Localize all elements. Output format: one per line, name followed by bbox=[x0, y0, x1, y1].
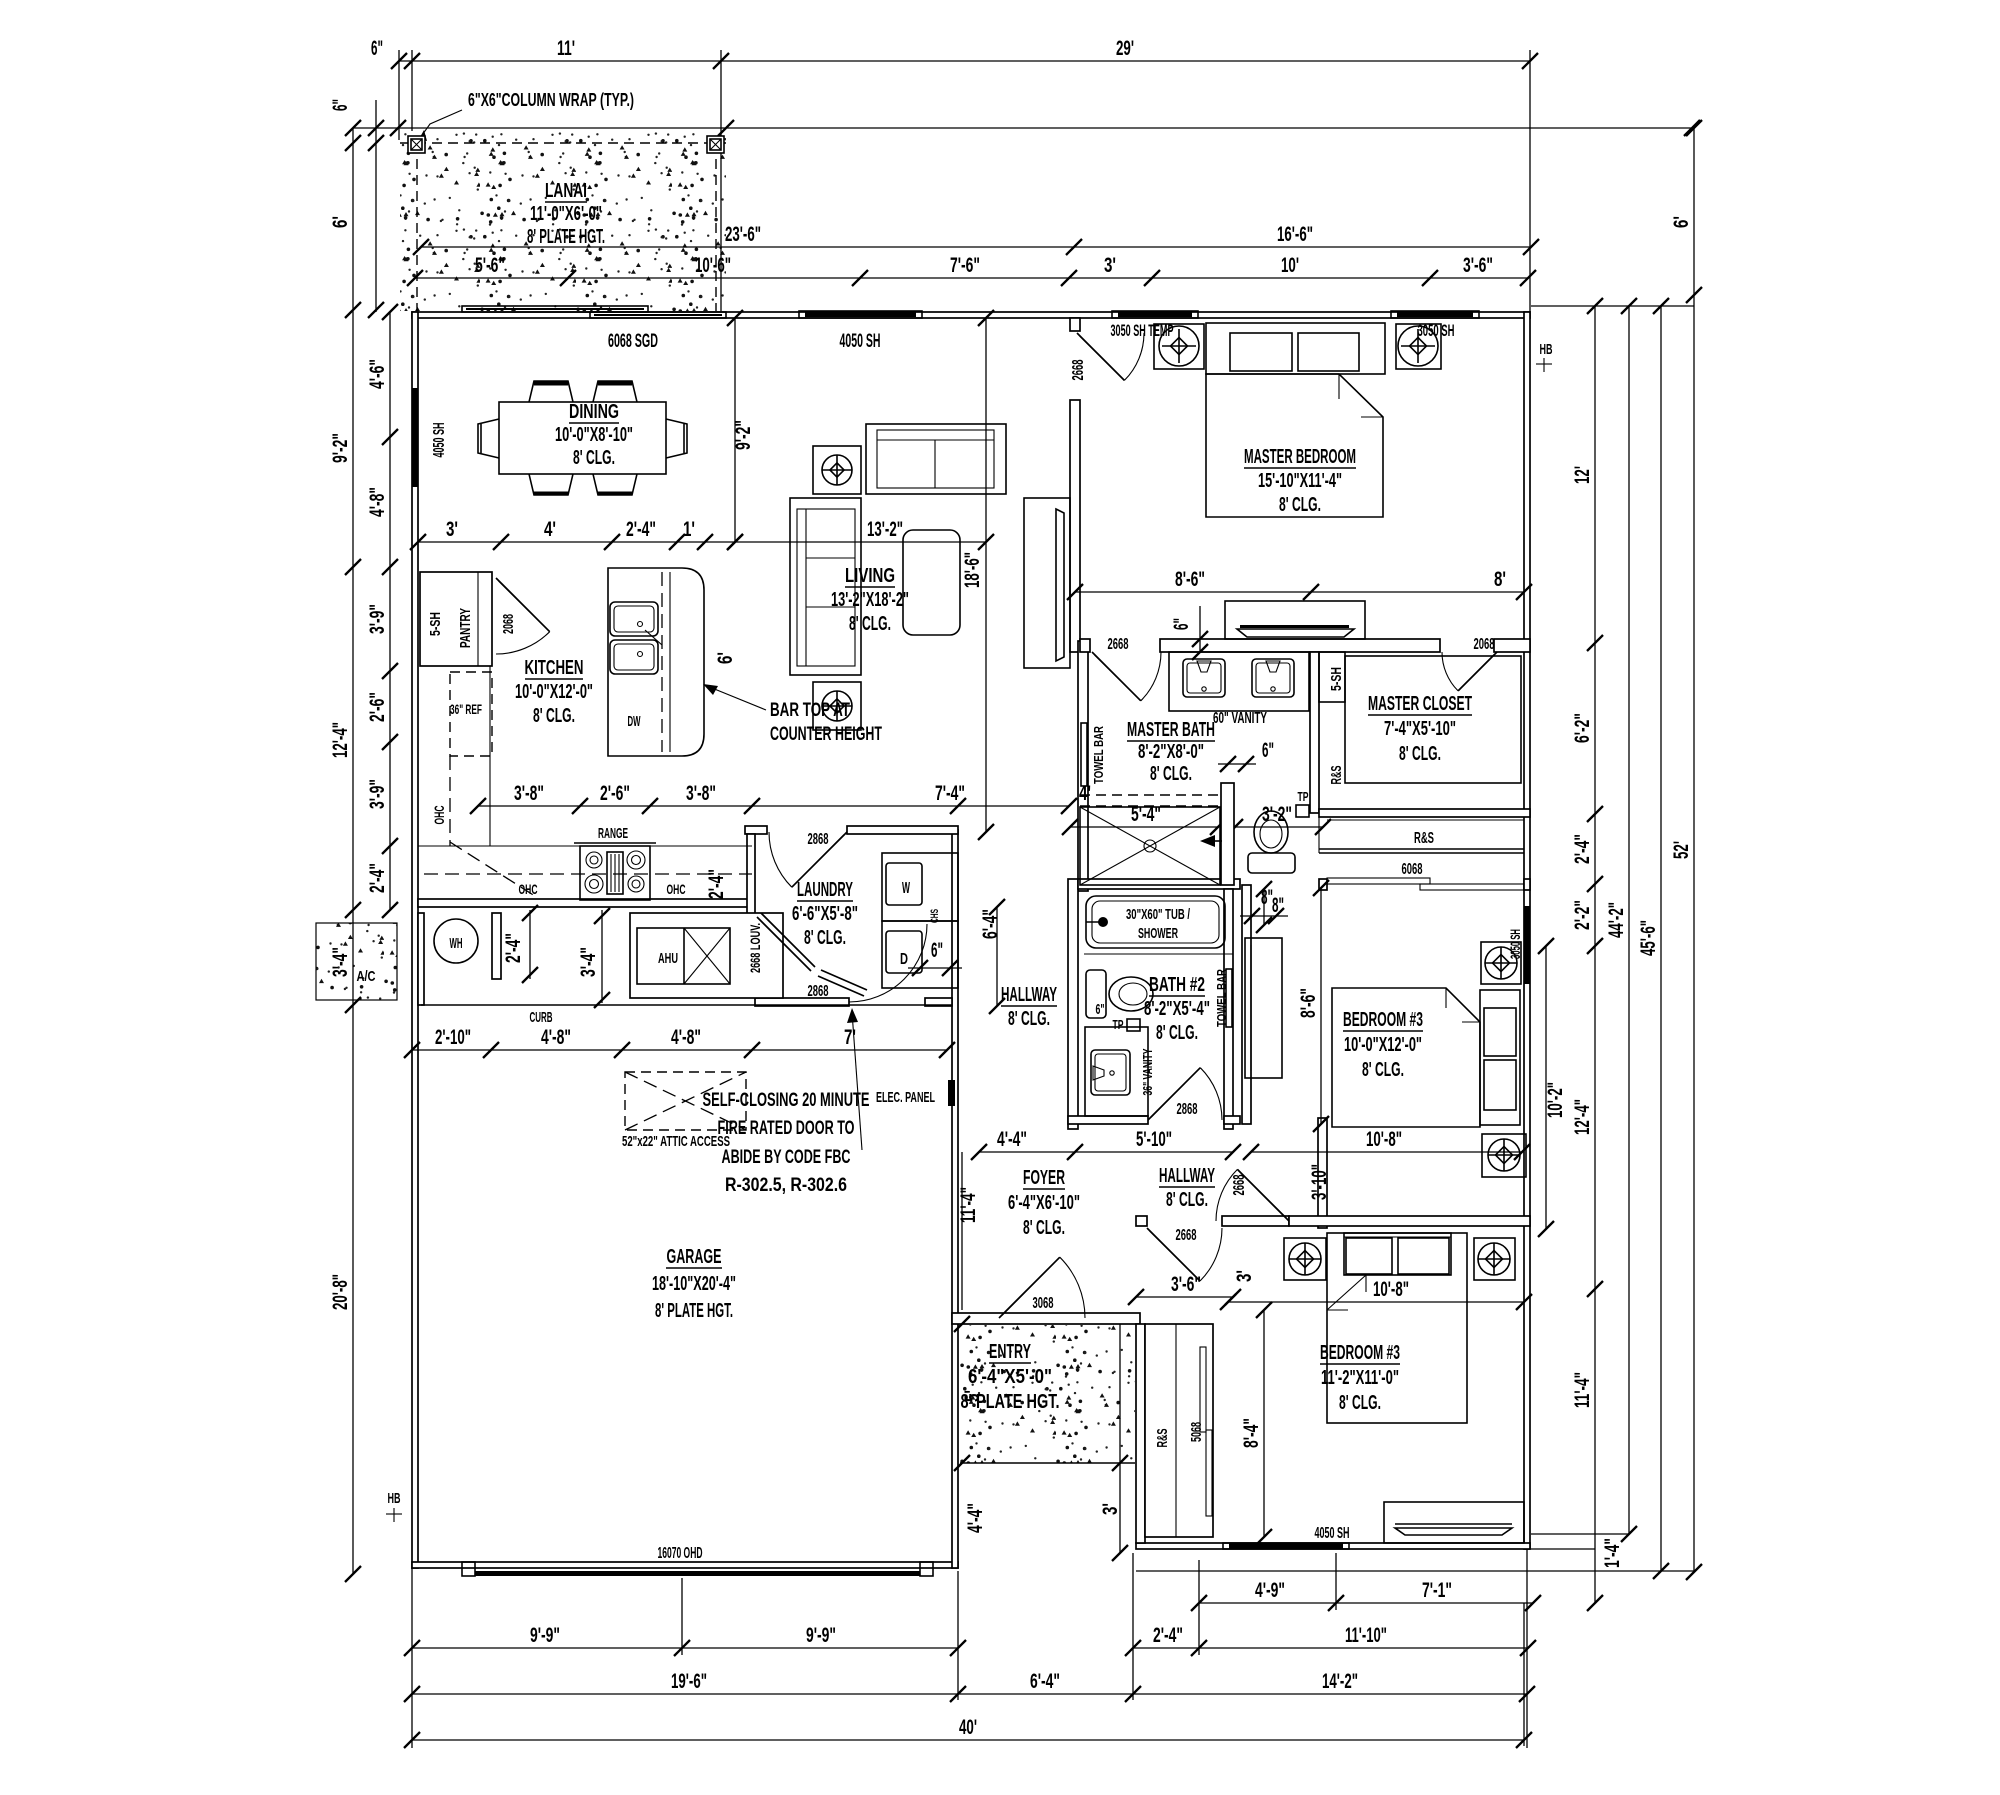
dim row 23-6 16-6 bbox=[421, 246, 1531, 248]
botbed fold bbox=[1327, 1275, 1366, 1310]
svg-text:R-302.5, R-302.6: R-302.5, R-302.6 bbox=[725, 1175, 847, 1196]
dining chair right bbox=[666, 419, 687, 458]
exterior wall right bbox=[1524, 312, 1530, 1549]
wall bath2 south segA bbox=[1068, 1116, 1148, 1124]
right dim col x1694 52' bbox=[1693, 128, 1695, 1572]
svg-text:3': 3' bbox=[1233, 1270, 1256, 1282]
tp mbath bbox=[1296, 805, 1309, 817]
svg-text:3': 3' bbox=[1099, 1503, 1122, 1515]
wall wh closet bbox=[418, 913, 424, 1005]
A/C pad stipple bbox=[316, 923, 397, 1000]
svg-text:4050 SH: 4050 SH bbox=[1315, 1525, 1350, 1542]
svg-text:10'-0"X12'-0": 10'-0"X12'-0" bbox=[1344, 1034, 1422, 1056]
svg-text:11'-2"X11'-0": 11'-2"X11'-0" bbox=[1321, 1367, 1399, 1389]
foyer dim 11-4 bbox=[961, 1152, 963, 1310]
closet shelf rect bbox=[1345, 656, 1521, 783]
wall bath2 south segB bbox=[1224, 1116, 1240, 1124]
svg-text:FOYER: FOYER bbox=[1023, 1167, 1065, 1189]
svg-text:7'-6": 7'-6" bbox=[950, 254, 980, 277]
range bbox=[580, 846, 650, 900]
laundry door 2868 top bbox=[792, 832, 847, 887]
window 3050 SH master bbox=[1397, 311, 1473, 317]
svg-text:3': 3' bbox=[446, 518, 458, 541]
svg-text:15'-10"X11'-4": 15'-10"X11'-4" bbox=[1258, 470, 1342, 492]
midbed body bbox=[1332, 988, 1480, 1127]
svg-text:COUNTER HEIGHT: COUNTER HEIGHT bbox=[770, 724, 882, 745]
left top bracket x376 bbox=[375, 100, 377, 312]
tub alcove front bbox=[1084, 953, 1233, 955]
svg-text:KITCHEN: KITCHEN bbox=[525, 657, 584, 679]
svg-text:11'-4": 11'-4" bbox=[957, 1187, 980, 1223]
svg-text:3'-9": 3'-9" bbox=[366, 779, 389, 809]
master bdrm door 2668 bbox=[1077, 333, 1124, 380]
svg-text:A/C: A/C bbox=[357, 968, 376, 985]
master vanity bbox=[1169, 652, 1309, 711]
svg-text:3'-9": 3'-9" bbox=[366, 604, 389, 634]
svg-text:9'-2": 9'-2" bbox=[732, 420, 755, 450]
entry porch slab stipple bbox=[960, 1325, 1135, 1463]
svg-text:2'-4": 2'-4" bbox=[502, 933, 525, 963]
svg-text:10'-8": 10'-8" bbox=[1366, 1128, 1402, 1151]
svg-text:8' PLATE HGT.: 8' PLATE HGT. bbox=[527, 226, 605, 248]
tub bbox=[1086, 896, 1225, 948]
tv cabinet bbox=[1024, 498, 1070, 668]
wall laundry south bbox=[755, 998, 849, 1006]
lanai column 2 bbox=[707, 136, 724, 153]
svg-text:4'-9": 4'-9" bbox=[1255, 1579, 1285, 1602]
svg-text:6": 6" bbox=[329, 99, 352, 111]
master fan 2 bbox=[1396, 324, 1441, 369]
closet west wall bottom bbox=[1136, 1324, 1145, 1543]
toilet mbath bbox=[1248, 853, 1295, 873]
svg-text:1': 1' bbox=[683, 518, 695, 541]
master sink 1 bbox=[1183, 659, 1225, 697]
svg-text:D: D bbox=[900, 951, 908, 968]
svg-text:8' CLG.: 8' CLG. bbox=[1150, 763, 1192, 785]
svg-text:ENTRY: ENTRY bbox=[989, 1341, 1031, 1363]
sofa top bbox=[866, 424, 1006, 494]
svg-text:5'-10": 5'-10" bbox=[1136, 1128, 1172, 1151]
bottom bedroom door 2668 bbox=[1147, 1228, 1200, 1281]
svg-text:4'-4": 4'-4" bbox=[997, 1128, 1027, 1151]
svg-text:6'-4": 6'-4" bbox=[1030, 1670, 1060, 1693]
island dashed divider bbox=[661, 572, 663, 752]
dining chair left bbox=[478, 419, 499, 458]
svg-text:8' CLG.: 8' CLG. bbox=[1008, 1008, 1050, 1030]
hall door 2668 to bedrooms bbox=[1237, 1169, 1289, 1221]
svg-text:OHC: OHC bbox=[667, 881, 686, 897]
svg-text:HALLWAY: HALLWAY bbox=[1001, 984, 1057, 1006]
svg-text:PANTRY: PANTRY bbox=[457, 608, 474, 648]
svg-text:6"X6"COLUMN WRAP (TYP.): 6"X6"COLUMN WRAP (TYP.) bbox=[468, 90, 634, 110]
svg-text:CHS: CHS bbox=[929, 909, 941, 923]
garage top curb bbox=[421, 1004, 952, 1006]
towel bar bath2 bbox=[1226, 969, 1232, 1027]
wall master bath west bbox=[1078, 641, 1088, 891]
window 4050 SH top bbox=[805, 311, 916, 317]
svg-text:5'-6": 5'-6" bbox=[475, 254, 505, 277]
bedroom mid dim 8-6 bbox=[1320, 888, 1322, 1124]
master pillow 2 bbox=[1298, 333, 1359, 371]
svg-text:45'-6": 45'-6" bbox=[1637, 920, 1660, 956]
svg-text:2668: 2668 bbox=[1108, 636, 1129, 653]
svg-text:ELEC. PANEL: ELEC. PANEL bbox=[876, 1089, 935, 1106]
svg-text:6": 6" bbox=[931, 939, 943, 962]
svg-text:36" VANITY: 36" VANITY bbox=[1140, 1048, 1155, 1095]
master bed fold bbox=[1339, 374, 1383, 417]
closet5068 doors bbox=[1200, 1347, 1206, 1432]
svg-text:10'-6": 10'-6" bbox=[695, 254, 731, 277]
svg-text:2068: 2068 bbox=[500, 614, 517, 634]
closet5068 divider bbox=[1175, 1324, 1177, 1537]
svg-text:8' CLG.: 8' CLG. bbox=[1166, 1189, 1208, 1211]
left dim col x390 bbox=[389, 312, 391, 910]
bottom extension verticals bbox=[411, 1568, 413, 1748]
master fan 1 bbox=[1154, 324, 1204, 369]
mbath dim 5-4 bbox=[1070, 826, 1218, 828]
svg-text:TP: TP bbox=[1298, 789, 1309, 804]
svg-text:8' PLATE HGT.: 8' PLATE HGT. bbox=[655, 1300, 733, 1322]
svg-text:HALLWAY: HALLWAY bbox=[1159, 1165, 1215, 1187]
kitchen counter south edge bbox=[418, 845, 580, 847]
svg-text:14'-2": 14'-2" bbox=[1322, 1670, 1358, 1693]
svg-text:GARAGE: GARAGE bbox=[667, 1246, 722, 1268]
closet 5sh box bbox=[1319, 652, 1345, 702]
kitchen ohc dashed left bbox=[449, 756, 451, 846]
svg-text:6'-4"X5'-0": 6'-4"X5'-0" bbox=[968, 1366, 1052, 1388]
svg-text:BATH #2: BATH #2 bbox=[1149, 974, 1205, 996]
svg-text:2868: 2868 bbox=[808, 983, 829, 1000]
svg-text:8'-4": 8'-4" bbox=[1240, 1418, 1263, 1448]
window 4050 SH bottom bedroom bbox=[1229, 1543, 1343, 1549]
svg-text:13'-2"X18'-2": 13'-2"X18'-2" bbox=[831, 589, 909, 611]
svg-text:6'-2": 6'-2" bbox=[1571, 713, 1594, 743]
wall bedrooms divider segA bbox=[1136, 1216, 1147, 1226]
ahu unit bbox=[637, 928, 730, 984]
svg-text:2868: 2868 bbox=[1177, 1101, 1198, 1118]
svg-text:HB: HB bbox=[388, 1490, 401, 1507]
svg-text:6': 6' bbox=[714, 652, 737, 664]
svg-text:44'-2": 44'-2" bbox=[1605, 902, 1628, 938]
dim row 6in 11ft 29ft bbox=[399, 60, 1530, 62]
sofa left bbox=[790, 498, 861, 675]
midbed pillow 2 bbox=[1484, 1060, 1516, 1110]
wh circle bbox=[434, 919, 478, 963]
wall bedroom mid west bbox=[1242, 885, 1251, 1124]
botbed tv tray bbox=[1395, 1528, 1512, 1535]
svg-text:8' CLG.: 8' CLG. bbox=[1362, 1059, 1404, 1081]
dining table bbox=[499, 402, 666, 474]
wall bath2 east bbox=[1224, 889, 1233, 1129]
svg-text:11'-0"X6'-0": 11'-0"X6'-0" bbox=[530, 203, 602, 225]
svg-text:MASTER CLOSET: MASTER CLOSET bbox=[1368, 693, 1472, 715]
svg-text:4': 4' bbox=[544, 518, 556, 541]
wall tub room bbox=[1078, 879, 1240, 889]
exterior wall bottom bedroom bbox=[1136, 1543, 1530, 1549]
kitchen island with bar bbox=[608, 568, 704, 756]
wall closet south bbox=[1319, 809, 1530, 817]
botbed pillow 1 bbox=[1346, 1238, 1392, 1274]
svg-text:2668: 2668 bbox=[1070, 359, 1087, 380]
wall bedroom2 north stubs bbox=[1319, 879, 1327, 890]
svg-text:TOWEL BAR: TOWEL BAR bbox=[1214, 969, 1229, 1027]
svg-text:6'-6"X5'-8": 6'-6"X5'-8" bbox=[792, 903, 858, 925]
svg-text:6': 6' bbox=[329, 216, 352, 228]
svg-text:WH: WH bbox=[450, 935, 463, 952]
svg-text:12'-4": 12'-4" bbox=[329, 722, 352, 758]
entry door 3068 gap bbox=[997, 1314, 1087, 1323]
dryer bbox=[882, 921, 958, 988]
svg-text:6": 6" bbox=[371, 37, 383, 60]
svg-text:FIRE RATED DOOR TO: FIRE RATED DOOR TO bbox=[718, 1118, 855, 1139]
svg-text:2'-4": 2'-4" bbox=[626, 518, 656, 541]
svg-text:8' CLG.: 8' CLG. bbox=[1023, 1217, 1065, 1239]
foyer dim row bbox=[979, 1151, 1233, 1153]
washer bbox=[882, 853, 958, 921]
wall hall-bedroom mid bbox=[1318, 1118, 1327, 1228]
svg-text:4'-8": 4'-8" bbox=[671, 1026, 701, 1049]
svg-text:4'-8": 4'-8" bbox=[541, 1026, 571, 1049]
svg-text:2668 LOUV.: 2668 LOUV. bbox=[747, 923, 763, 973]
kitchen counter line left bbox=[489, 666, 491, 846]
botbed headboard bbox=[1344, 1233, 1451, 1275]
svg-text:OHC: OHC bbox=[431, 806, 447, 825]
svg-text:RANGE: RANGE bbox=[598, 825, 628, 842]
dining chair top2 bbox=[593, 381, 637, 402]
wall bedrooms divider segB bbox=[1222, 1216, 1289, 1226]
svg-text:10'-0"X8'-10": 10'-0"X8'-10" bbox=[555, 424, 633, 446]
exterior wall top bbox=[412, 312, 1530, 318]
svg-text:2'-2": 2'-2" bbox=[1571, 900, 1594, 930]
svg-text:R&S: R&S bbox=[1154, 1429, 1171, 1448]
svg-text:MASTER BATH: MASTER BATH bbox=[1127, 719, 1215, 741]
midbed headboard bbox=[1480, 990, 1520, 1125]
wall master closet divider bbox=[1310, 652, 1319, 813]
shower pan bbox=[1080, 807, 1220, 885]
svg-text:5-SH: 5-SH bbox=[1328, 667, 1345, 691]
end table 2 bbox=[813, 682, 861, 730]
svg-text:6'-4"X6'-10": 6'-4"X6'-10" bbox=[1008, 1192, 1080, 1214]
wall bedrooms divider segC bbox=[1289, 1216, 1530, 1226]
botbed body bbox=[1327, 1233, 1467, 1423]
shower knee wall bbox=[1221, 783, 1234, 885]
exterior wall bottom garage bbox=[412, 1562, 958, 1568]
bath2 vanity bbox=[1085, 1027, 1148, 1116]
kitchen ohc dashed south bbox=[424, 873, 752, 875]
svg-text:2'-4": 2'-4" bbox=[366, 863, 389, 893]
midbed fan 1 bbox=[1481, 942, 1521, 984]
svg-text:6068 SGD: 6068 SGD bbox=[608, 331, 658, 352]
svg-text:AHU: AHU bbox=[658, 950, 678, 967]
svg-text:4'-4": 4'-4" bbox=[964, 1503, 987, 1533]
svg-text:12': 12' bbox=[1571, 466, 1594, 484]
bedroom bottom dim 10-8 bbox=[1228, 1301, 1524, 1303]
wall linen south bbox=[1319, 848, 1524, 850]
svg-text:8'-6": 8'-6" bbox=[1297, 988, 1320, 1018]
left dim col x353 bbox=[352, 128, 354, 1574]
svg-text:4050 SH: 4050 SH bbox=[840, 331, 881, 352]
kitchen dim row y542 bbox=[418, 541, 705, 543]
svg-text:8'-2"X8'-0": 8'-2"X8'-0" bbox=[1138, 741, 1204, 763]
svg-text:2'-6": 2'-6" bbox=[600, 782, 630, 805]
garage east wall bbox=[952, 830, 958, 1568]
svg-text:5': 5' bbox=[961, 1390, 984, 1402]
svg-text:SHOWER: SHOWER bbox=[1138, 925, 1178, 942]
window 3050 SH bedroom right bbox=[1524, 906, 1530, 984]
svg-text:8' CLG.: 8' CLG. bbox=[804, 927, 846, 949]
svg-text:8' CLG.: 8' CLG. bbox=[1279, 494, 1321, 516]
right dim col x1595 bbox=[1594, 306, 1596, 1603]
svg-text:8' CLG.: 8' CLG. bbox=[1339, 1392, 1381, 1414]
svg-text:2668: 2668 bbox=[1231, 1174, 1248, 1195]
botbed dresser bbox=[1384, 1502, 1524, 1543]
kitchen dim row y806 bbox=[478, 805, 1069, 807]
svg-text:3'-10": 3'-10" bbox=[1308, 1164, 1331, 1200]
svg-text:6'-4": 6'-4" bbox=[979, 909, 1002, 939]
svg-text:10'-8": 10'-8" bbox=[1373, 1278, 1409, 1301]
svg-text:10': 10' bbox=[1281, 254, 1299, 277]
bath2 tp bbox=[1127, 1019, 1140, 1031]
svg-text:23'-6": 23'-6" bbox=[725, 223, 761, 246]
shower head bbox=[1200, 835, 1215, 847]
svg-text:2868: 2868 bbox=[808, 831, 829, 848]
pantry door bbox=[496, 578, 550, 632]
svg-text:ABIDE BY CODE FBC: ABIDE BY CODE FBC bbox=[722, 1147, 851, 1168]
bottom dim row 40ft bbox=[412, 1739, 1524, 1741]
midbed dresser bbox=[1245, 938, 1282, 1078]
svg-text:2'-4": 2'-4" bbox=[1153, 1624, 1183, 1647]
svg-text:8'-6": 8'-6" bbox=[1175, 568, 1205, 591]
coffee table bbox=[903, 530, 960, 635]
svg-text:6': 6' bbox=[1670, 216, 1693, 228]
svg-text:12'-4": 12'-4" bbox=[1571, 1099, 1594, 1135]
svg-text:4050 SH: 4050 SH bbox=[431, 423, 448, 458]
hall dim 6-4 bbox=[996, 907, 998, 1006]
svg-text:10'-2": 10'-2" bbox=[1544, 1082, 1567, 1118]
svg-text:3'-6": 3'-6" bbox=[1463, 254, 1493, 277]
svg-text:8' CLG.: 8' CLG. bbox=[533, 705, 575, 727]
mbath dim 3-2 bbox=[1235, 826, 1323, 828]
right dim col x1661 45'-6 bbox=[1660, 306, 1662, 1571]
svg-text:8' CLG.: 8' CLG. bbox=[1156, 1022, 1198, 1044]
svg-text:16070 OHD: 16070 OHD bbox=[658, 1545, 703, 1562]
master tv tray bbox=[1237, 629, 1354, 637]
svg-text:4'-8": 4'-8" bbox=[366, 487, 389, 517]
svg-text:7'-4": 7'-4" bbox=[935, 782, 965, 805]
svg-text:7'-1": 7'-1" bbox=[1422, 1579, 1452, 1602]
master sink 2 bbox=[1252, 659, 1294, 697]
svg-text:8': 8' bbox=[1494, 568, 1506, 591]
svg-text:3': 3' bbox=[1104, 254, 1116, 277]
svg-text:11': 11' bbox=[557, 37, 575, 60]
wall bath north segA bbox=[1080, 639, 1090, 652]
svg-text:16'-6": 16'-6" bbox=[1277, 223, 1313, 246]
svg-text:7'-4"X5'-10": 7'-4"X5'-10" bbox=[1384, 718, 1456, 740]
wall living-master stub bbox=[1070, 318, 1080, 331]
closet5068 box bbox=[1145, 1324, 1213, 1537]
window 3050 SH TEMP bbox=[1118, 311, 1192, 317]
wall kitchen south bbox=[418, 899, 752, 907]
svg-text:8' CLG.: 8' CLG. bbox=[573, 447, 615, 469]
svg-text:SELF-CLOSING 20 MINUTE: SELF-CLOSING 20 MINUTE bbox=[703, 1090, 870, 1111]
svg-text:13'-2": 13'-2" bbox=[867, 518, 903, 541]
svg-text:36" REF: 36" REF bbox=[450, 701, 482, 717]
bypass door 6068 bbox=[1327, 878, 1430, 884]
svg-text:R&S: R&S bbox=[1328, 766, 1345, 785]
svg-text:18'-6": 18'-6" bbox=[961, 552, 984, 588]
wall bath2 west bbox=[1068, 879, 1078, 1129]
wall pantry bbox=[420, 572, 492, 666]
midbed fan 2 bbox=[1482, 1134, 1526, 1177]
svg-text:2068: 2068 bbox=[1474, 636, 1495, 653]
bottom dim row 19-6 6-4 14-2 bbox=[412, 1693, 1527, 1695]
dim extension verticals top bbox=[398, 50, 400, 140]
end table 1 bbox=[813, 446, 861, 494]
kitchen sink bbox=[610, 602, 658, 636]
bedroom mid dim 10-8 bbox=[1251, 1151, 1522, 1153]
svg-text:1'-4": 1'-4" bbox=[1601, 1538, 1624, 1568]
svg-text:BEDROOM #3: BEDROOM #3 bbox=[1343, 1009, 1423, 1031]
wall closet north segC bbox=[1494, 639, 1530, 652]
closet door 2068 bbox=[1458, 652, 1497, 691]
hall door dim 3-6 bbox=[1136, 1296, 1233, 1298]
svg-text:5-SH: 5-SH bbox=[427, 612, 444, 636]
svg-text:8'-2"X5'-4": 8'-2"X5'-4" bbox=[1144, 998, 1210, 1020]
svg-text:CURB: CURB bbox=[530, 1009, 553, 1026]
living dim 13-2 bbox=[705, 541, 986, 543]
laundry dim lines bbox=[529, 910, 531, 979]
lanai column 1 bbox=[408, 136, 425, 153]
bath2 toilet bbox=[1086, 970, 1106, 1018]
svg-text:8' CLG.: 8' CLG. bbox=[1399, 743, 1441, 765]
right horiz connectors bbox=[1531, 305, 1694, 307]
entry door 3068 leaf bbox=[999, 1257, 1060, 1318]
svg-text:R&S: R&S bbox=[1414, 830, 1434, 847]
right dim sub col 10'-2 bbox=[1545, 946, 1547, 1229]
svg-text:TP: TP bbox=[1113, 1017, 1124, 1032]
svg-text:18'-10"X20'-4": 18'-10"X20'-4" bbox=[652, 1273, 736, 1295]
svg-text:52"x22" ATTIC ACCESS: 52"x22" ATTIC ACCESS bbox=[622, 1133, 730, 1150]
shower dashed bbox=[1080, 794, 1220, 796]
wall bath north segB bbox=[1160, 639, 1440, 652]
wall laundry west bbox=[747, 834, 755, 917]
svg-text:MASTER BEDROOM: MASTER BEDROOM bbox=[1244, 446, 1356, 468]
entry slab south edge bbox=[960, 1462, 1135, 1464]
svg-text:2'-6": 2'-6" bbox=[366, 692, 389, 722]
lanai concrete slab stipple bbox=[400, 131, 726, 311]
bedroom bottom dim 8-4 bbox=[1263, 1310, 1265, 1537]
dining chair bot1 bbox=[529, 474, 573, 495]
svg-text:LIVING: LIVING bbox=[845, 565, 895, 587]
svg-text:W: W bbox=[902, 880, 910, 897]
bottom dim row 2-4 11-10 bbox=[1133, 1647, 1528, 1649]
master bath door 2668 bbox=[1092, 652, 1141, 701]
svg-text:3'-8": 3'-8" bbox=[686, 782, 716, 805]
svg-text:6": 6" bbox=[1170, 618, 1193, 630]
svg-text:11'-4": 11'-4" bbox=[1571, 1372, 1594, 1408]
svg-text:9'-9": 9'-9" bbox=[530, 1624, 560, 1647]
laundry louver doors bbox=[757, 917, 811, 971]
roofline y128 bbox=[353, 127, 1692, 129]
botbed fan 2 bbox=[1474, 1238, 1515, 1280]
master bed body bbox=[1206, 374, 1383, 517]
svg-text:10'-0"X12'-0": 10'-0"X12'-0" bbox=[515, 681, 593, 703]
svg-text:5068: 5068 bbox=[1188, 1422, 1205, 1442]
svg-text:2668: 2668 bbox=[1176, 1227, 1197, 1244]
foyer south wall / entry top bbox=[952, 1313, 1140, 1324]
kitchen ref dashed bbox=[450, 672, 492, 756]
master dresser bbox=[1225, 601, 1365, 639]
